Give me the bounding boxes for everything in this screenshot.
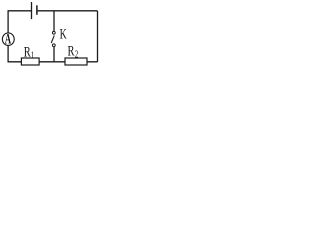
wire left side (top-left corner down to bottom-left corner) <box>7 11 9 62</box>
battery cell: long plate <box>31 2 33 19</box>
svg-text:K: K <box>60 26 68 43</box>
wire top-right (battery to top-right corner) <box>37 10 98 12</box>
svg-text:1: 1 <box>31 50 34 60</box>
switch K: open blade <box>51 35 54 43</box>
resistor R2 (box) <box>65 58 87 65</box>
switch K: top terminal circle <box>52 31 55 34</box>
switch K: top lead wire <box>53 11 55 31</box>
resistor R1 (box) <box>21 58 39 65</box>
switch K: bottom terminal circle <box>52 44 55 47</box>
ammeter A (circle with letter A) <box>2 33 14 46</box>
wire bottom (bottom-right corner to bottom-left corner) <box>8 61 98 63</box>
svg-text:R: R <box>68 43 75 59</box>
wire right side (top-right corner down to bottom-right corner) <box>97 11 99 62</box>
svg-text:A: A <box>5 30 11 47</box>
battery cell: short plate <box>36 5 38 15</box>
svg-text:R: R <box>24 44 31 60</box>
svg-text:2: 2 <box>75 48 79 59</box>
wire top-left (from node A corner to battery) <box>8 10 32 12</box>
switch K: bottom lead wire <box>53 47 55 62</box>
